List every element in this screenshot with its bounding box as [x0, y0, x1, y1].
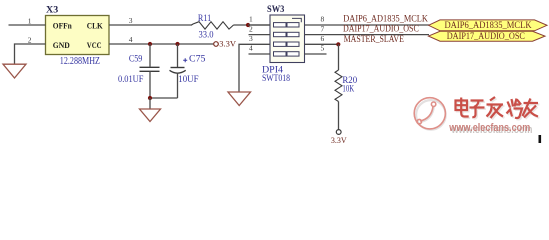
svg-text:10K: 10K — [342, 84, 354, 95]
junction node at cap ground — [148, 96, 152, 100]
svg-text:10UF: 10UF — [178, 74, 198, 85]
resistor R20 — [335, 70, 342, 102]
wire R11 to SW3 pin1 — [234, 24, 271, 26]
svg-text:www.elecfans.com: www.elecfans.com — [448, 122, 530, 134]
svg-text:8: 8 — [321, 15, 325, 24]
svg-text:7: 7 — [321, 24, 325, 33]
wire net DAIP17_AUDIO_OSC — [305, 34, 430, 36]
svg-text:GND: GND — [53, 40, 70, 50]
svg-text:3.3V: 3.3V — [219, 39, 236, 49]
junction node at C75 — [175, 42, 179, 46]
wire X3 pin 1 — [9, 24, 46, 26]
oscillator X3 body — [46, 16, 110, 55]
switch rows — [274, 23, 300, 57]
C75 plus sign — [183, 58, 187, 62]
port DAIP17_AUDIO_OSC — [429, 31, 546, 41]
svg-text:R11: R11 — [198, 13, 211, 24]
svg-text:12.288MHZ: 12.288MHZ — [60, 56, 100, 67]
black tick bottom right — [539, 135, 542, 143]
svg-text:X3: X3 — [46, 5, 58, 16]
svg-text:1: 1 — [249, 15, 253, 24]
svg-text:SWT018: SWT018 — [262, 73, 290, 84]
svg-text:DAIP17_AUDIO_OSC: DAIP17_AUDIO_OSC — [343, 24, 419, 35]
port DAIP6_AD1835_MCLK — [429, 20, 548, 31]
junction node at C59 — [148, 42, 152, 46]
switch SW3 body — [270, 15, 305, 63]
wire R20 to 3.3V — [338, 102, 340, 130]
wire net DAIP6_AD1835_MCLK — [305, 24, 430, 26]
svg-text:OFFn: OFFn — [53, 20, 72, 30]
switch lever row1 — [292, 18, 301, 22]
svg-text:DAIP17_AUDIO_OSC: DAIP17_AUDIO_OSC — [447, 31, 525, 42]
svg-text:MASTER_SLAVE: MASTER_SLAVE — [344, 34, 404, 45]
wire SW3 pin 4 stub — [249, 53, 271, 55]
svg-text:2: 2 — [249, 24, 253, 33]
power port 3.3V — [214, 42, 219, 47]
watermark text 电子发烧友 — [457, 98, 540, 119]
wire X3 pin 3 to R11 — [109, 24, 192, 26]
svg-text:33.0: 33.0 — [199, 30, 214, 41]
svg-text:4: 4 — [249, 44, 253, 53]
wire X3 pin 2 — [15, 44, 46, 64]
wire SW3 pin 1 stub — [248, 24, 270, 26]
wire cap commons — [150, 97, 178, 99]
wire X3 pin 4 (VCC rail) — [109, 43, 213, 45]
svg-text:CLK: CLK — [87, 20, 103, 30]
svg-text:0.01UF: 0.01UF — [118, 74, 143, 85]
ground GND1 — [3, 64, 26, 78]
ground GND2 — [140, 109, 161, 122]
power port 3.3V bottom — [336, 130, 341, 135]
junction node at R20 top — [336, 42, 340, 46]
svg-text:3: 3 — [129, 16, 133, 25]
svg-text:6: 6 — [321, 34, 325, 43]
wire MASTER_SLAVE to R20 — [338, 44, 340, 70]
svg-text:4: 4 — [129, 35, 133, 44]
junction node at SW3 pin 1 — [246, 23, 250, 27]
svg-text:1: 1 — [28, 16, 32, 25]
capacitor C75 (polarized) — [177, 44, 179, 68]
wire to GND2 — [149, 98, 151, 109]
ground GND3 — [228, 92, 251, 106]
resistor R11 — [192, 22, 234, 29]
svg-text:DAIP6_AD1835_MCLK: DAIP6_AD1835_MCLK — [445, 20, 532, 31]
svg-text:SW3: SW3 — [267, 4, 285, 15]
wire SW3 pin 2 stub — [249, 34, 271, 36]
svg-text:5: 5 — [321, 44, 325, 53]
svg-text:3.3V: 3.3V — [331, 135, 347, 145]
svg-text:VCC: VCC — [87, 40, 102, 50]
svg-text:3: 3 — [249, 34, 253, 43]
watermark emboss shadow — [416, 100, 446, 130]
svg-text:C75: C75 — [189, 54, 206, 65]
stub pin 5 — [305, 53, 327, 55]
wire SW3 pin3 to ground — [239, 44, 270, 92]
svg-text:2: 2 — [28, 35, 32, 44]
watermark logo circle — [414, 98, 445, 129]
svg-text:C59: C59 — [129, 54, 143, 65]
wire net MASTER_SLAVE — [305, 43, 339, 45]
capacitor C59 — [149, 44, 151, 67]
